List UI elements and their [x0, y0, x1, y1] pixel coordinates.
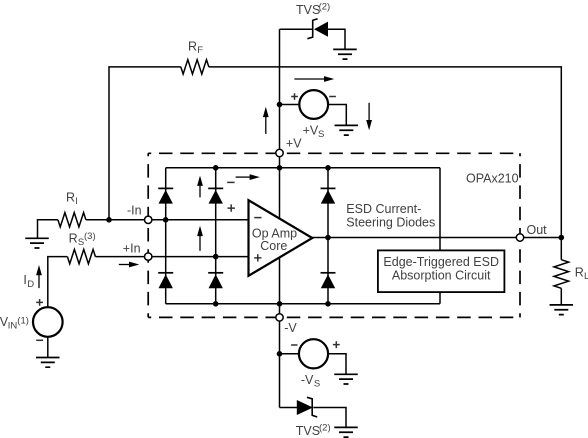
svg-text:R: R — [188, 39, 197, 53]
svg-text:Out: Out — [526, 223, 547, 237]
svg-text:+V: +V — [286, 137, 302, 151]
svg-text:L: L — [584, 271, 588, 282]
svg-text:Steering Diodes: Steering Diodes — [346, 215, 435, 229]
svg-text:TVS: TVS — [296, 3, 320, 17]
svg-text:-V: -V — [284, 321, 297, 335]
svg-text:IN: IN — [8, 320, 18, 331]
svg-text:S: S — [314, 379, 320, 390]
svg-text:+In: +In — [123, 241, 141, 255]
svg-text:OPAx210: OPAx210 — [466, 171, 519, 185]
svg-text:Absorption Circuit: Absorption Circuit — [392, 268, 491, 282]
svg-text:ESD Current-: ESD Current- — [346, 202, 421, 216]
svg-text:+V: +V — [303, 123, 319, 137]
svg-text:(2): (2) — [319, 423, 331, 434]
svg-text:R: R — [66, 190, 75, 204]
svg-text:Core: Core — [260, 239, 287, 253]
svg-text:TVS: TVS — [296, 424, 320, 438]
svg-text:I: I — [75, 196, 78, 207]
svg-text:S: S — [318, 129, 324, 140]
svg-text:-V: -V — [301, 373, 314, 387]
svg-text:-In: -In — [127, 203, 142, 217]
svg-text:D: D — [27, 279, 34, 290]
svg-text:(2): (2) — [319, 1, 331, 12]
svg-text:(1): (1) — [17, 315, 29, 326]
svg-text:F: F — [197, 45, 203, 56]
svg-text:(3): (3) — [84, 231, 96, 242]
svg-text:R: R — [575, 266, 584, 280]
svg-text:Edge-Triggered ESD: Edge-Triggered ESD — [383, 255, 499, 269]
svg-text:R: R — [69, 231, 78, 245]
